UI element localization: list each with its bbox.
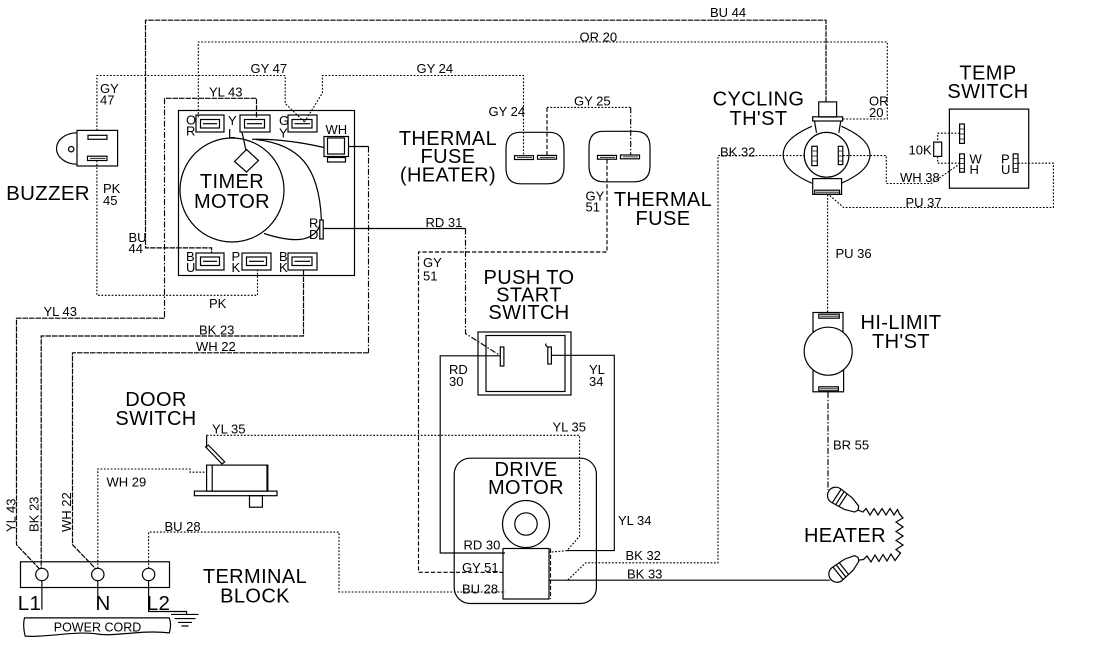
svg-text:GY 47: GY 47 — [251, 61, 288, 76]
svg-text:BK 23: BK 23 — [199, 323, 234, 338]
svg-text:BK 33: BK 33 — [627, 567, 662, 582]
svg-text:U: U — [186, 260, 195, 275]
svg-text:YL 34: YL 34 — [618, 513, 652, 528]
svg-text:FUSE: FUSE — [636, 208, 691, 230]
svg-text:WH 29: WH 29 — [107, 475, 147, 490]
svg-text:BR 55: BR 55 — [833, 438, 869, 453]
svg-text:51: 51 — [586, 200, 600, 215]
svg-text:MOTOR: MOTOR — [488, 477, 564, 499]
svg-text:BK 32: BK 32 — [720, 145, 755, 160]
svg-text:SWITCH: SWITCH — [115, 408, 196, 430]
svg-text:YL 43: YL 43 — [4, 499, 19, 533]
svg-text:MOTOR: MOTOR — [194, 191, 270, 213]
svg-text:YL 43: YL 43 — [44, 304, 78, 319]
svg-text:OR 20: OR 20 — [580, 30, 618, 45]
svg-text:K: K — [279, 260, 288, 275]
svg-text:YL 35: YL 35 — [553, 420, 587, 435]
svg-text:TH'ST: TH'ST — [729, 108, 787, 130]
svg-text:20: 20 — [869, 105, 883, 120]
svg-text:L1: L1 — [18, 592, 41, 615]
svg-text:PU 37: PU 37 — [906, 195, 942, 210]
svg-text:Y: Y — [279, 126, 288, 141]
svg-text:RD 30: RD 30 — [464, 538, 501, 553]
svg-text:BLOCK: BLOCK — [220, 586, 290, 608]
svg-text:U: U — [1001, 162, 1010, 177]
svg-text:BU 28: BU 28 — [462, 582, 498, 597]
svg-text:L: L — [228, 126, 235, 141]
svg-text:51: 51 — [423, 269, 437, 284]
svg-text:H: H — [970, 162, 979, 177]
svg-text:44: 44 — [129, 241, 143, 256]
svg-text:TH'ST: TH'ST — [872, 331, 930, 353]
svg-text:HEATER: HEATER — [804, 525, 886, 547]
svg-text:RD 31: RD 31 — [426, 215, 463, 230]
svg-text:D: D — [309, 227, 318, 242]
svg-text:10K: 10K — [909, 143, 932, 158]
svg-text:YL 35: YL 35 — [212, 422, 246, 437]
svg-text:WH 22: WH 22 — [59, 492, 74, 532]
svg-text:BU 44: BU 44 — [710, 5, 746, 20]
svg-text:POWER CORD: POWER CORD — [54, 621, 142, 635]
svg-text:SWITCH: SWITCH — [488, 302, 569, 324]
svg-text:BK 32: BK 32 — [626, 548, 661, 563]
svg-text:PK: PK — [209, 296, 227, 311]
svg-text:GY 24: GY 24 — [417, 61, 454, 76]
svg-text:PU 36: PU 36 — [836, 246, 872, 261]
svg-text:K: K — [232, 260, 241, 275]
svg-text:BUZZER: BUZZER — [6, 182, 90, 205]
svg-text:TIMER: TIMER — [200, 171, 264, 193]
svg-text:YL 43: YL 43 — [209, 85, 243, 100]
svg-text:BU 28: BU 28 — [165, 519, 201, 534]
svg-text:WH 38: WH 38 — [900, 170, 940, 185]
svg-text:GY 51: GY 51 — [462, 560, 499, 575]
svg-text:N: N — [95, 592, 110, 615]
svg-text:30: 30 — [449, 374, 463, 389]
svg-text:47: 47 — [100, 93, 114, 108]
svg-text:SWITCH: SWITCH — [947, 81, 1028, 103]
svg-text:L2: L2 — [147, 592, 170, 615]
svg-text:WH: WH — [326, 122, 348, 137]
svg-text:(HEATER): (HEATER) — [400, 165, 496, 187]
svg-text:GY 24: GY 24 — [489, 104, 526, 119]
svg-text:GY 25: GY 25 — [574, 94, 611, 109]
svg-text:WH 22: WH 22 — [196, 339, 236, 354]
svg-text:R: R — [186, 124, 195, 139]
svg-text:45: 45 — [103, 193, 117, 208]
svg-text:34: 34 — [589, 374, 603, 389]
svg-text:BK 23: BK 23 — [27, 497, 42, 532]
